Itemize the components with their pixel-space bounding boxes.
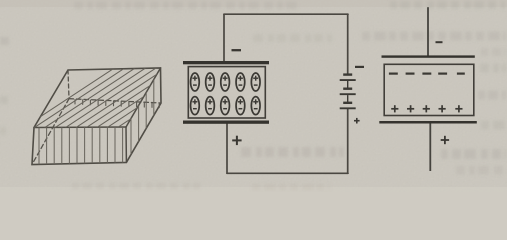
top face diagonal hatching (2, 60, 262, 142)
paper background (0, 0, 507, 192)
capacitor C1 bottom plate (183, 121, 269, 124)
wire to C2 top (427, 7, 429, 56)
hidden tick marks under back-bottom edge (75, 100, 159, 108)
hidden bottom-left oblique edge (dashed) (32, 99, 69, 165)
wire from C2 bottom (429, 124, 431, 172)
induced negative charge row (dashes) (389, 72, 465, 74)
dielectric box of C1 (188, 67, 265, 118)
right face vertical hatching (131, 66, 154, 164)
wire left lower (226, 123, 228, 173)
plus tops and minus bottoms inside molecules (192, 76, 258, 109)
front face vertical hatching (39, 126, 123, 166)
label plus below C1 (232, 136, 241, 145)
induced positive charge row (plus signs) (391, 105, 462, 112)
capacitor C1 top plate (183, 61, 269, 64)
wire bottom (227, 172, 348, 174)
wire right upper (347, 14, 349, 74)
capacitor C2 top plate (382, 55, 475, 57)
dielectric box of C2 (384, 64, 474, 115)
hidden back-bottom edge (dashed) (69, 99, 161, 103)
label minus at battery top (355, 66, 364, 68)
slab front top edge (34, 126, 126, 129)
label plus at battery bottom (354, 118, 360, 124)
faint bleed-through text rows (0, 5, 506, 187)
battery B1 (3 cells) (340, 75, 356, 109)
slab front right edge (125, 127, 127, 162)
polarized molecules (2 rows of 5) (191, 73, 261, 115)
label minus above C1 (232, 49, 242, 51)
hidden back-left vertical edge (dashed) (68, 70, 69, 99)
slab top-right oblique edge (126, 68, 161, 127)
wire right lower (347, 109, 349, 174)
wire top (224, 13, 348, 15)
label minus near C2 top wire (436, 41, 443, 43)
capacitor C2 bottom plate (379, 121, 477, 124)
label plus near C2 bottom wire (441, 136, 449, 144)
slab outline (32, 68, 161, 165)
wire left upper (223, 14, 225, 61)
